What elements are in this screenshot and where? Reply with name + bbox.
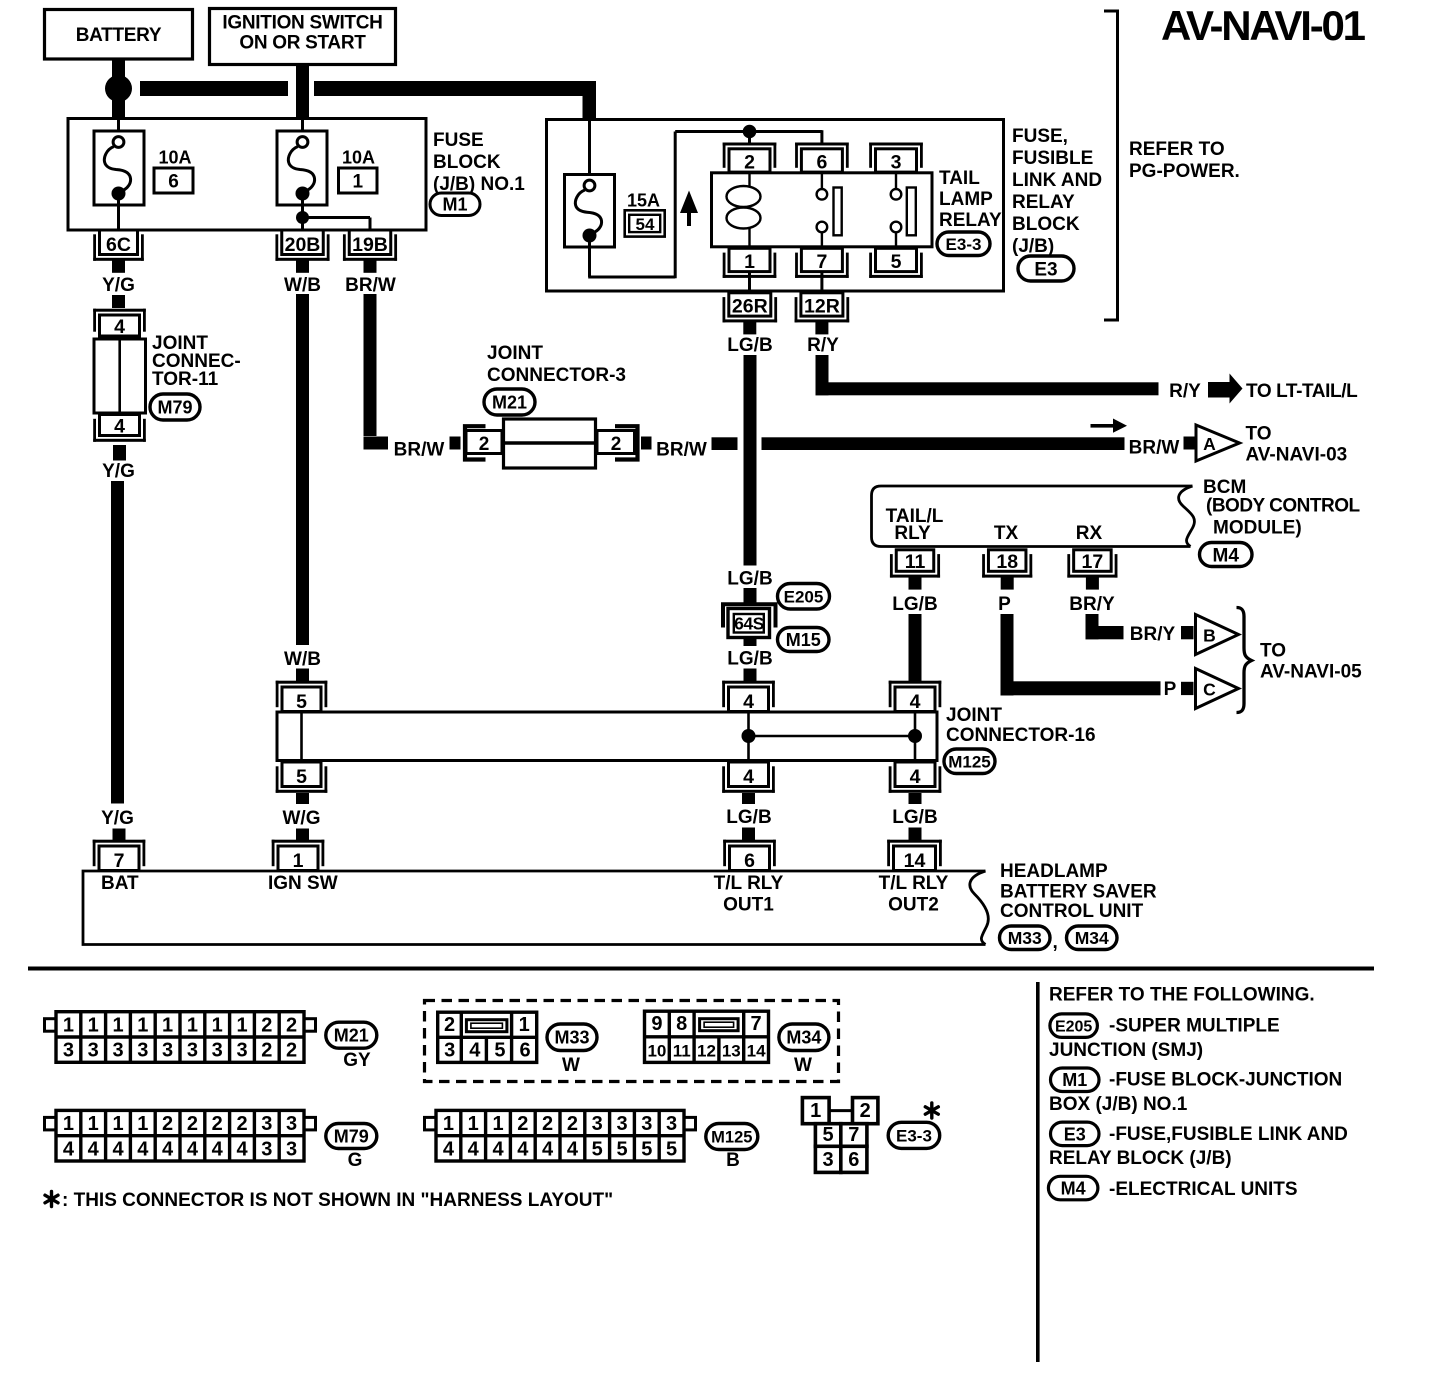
JC-16 pin 5 top [276,681,328,684]
connector ref M21 oval [484,389,535,415]
svg-text:4: 4 [187,1138,199,1160]
SMJ 64S bracket [723,604,776,627]
svg-text:4: 4 [517,1138,529,1160]
svg-text:12: 12 [697,1041,716,1060]
svg-text:18: 18 [996,551,1018,573]
svg-text:26R: 26R [732,296,768,318]
connector ref M33 oval (bottom) [547,1024,597,1051]
svg-text:5: 5 [494,1039,505,1061]
legend vertical separator [1036,982,1040,1362]
svg-text:ON OR START: ON OR START [239,33,366,54]
svg-text:LG/B: LG/B [727,649,772,670]
svg-text:5: 5 [891,251,902,273]
connector ref M34 oval (bottom) [779,1024,829,1051]
up arrow (energize direction) [680,191,698,214]
wire: stub to arrow A [1184,437,1196,450]
svg-text:LG/B: LG/B [892,807,937,828]
svg-text:5: 5 [823,1124,834,1146]
svg-text:3: 3 [162,1040,173,1062]
tail lamp relay body [712,173,933,247]
svg-text:11: 11 [905,551,926,573]
bottom connector M125 grid [425,1117,437,1130]
svg-text:15A: 15A [627,191,660,211]
junction dot: fuse 1 output split [296,211,309,224]
svg-text:4: 4 [114,316,125,338]
svg-text:TAIL: TAIL [939,168,980,189]
svg-text:FUSIBLE: FUSIBLE [1012,148,1093,169]
fuse/fusible-link/relay block outline [547,120,1004,292]
relay contact 6-7 [821,173,823,189]
legend M4 oval [1048,1176,1098,1200]
svg-text:6: 6 [519,1039,530,1061]
wire: stub below 4 br [909,793,922,804]
svg-text:JOINT: JOINT [487,343,543,364]
svg-text:M21: M21 [334,1026,369,1046]
small flow arrow over BR/W [1091,424,1114,428]
svg-text:6C: 6C [106,234,131,256]
svg-text:M4: M4 [1213,545,1240,566]
svg-text:LG/B: LG/B [726,807,771,828]
wire: BR/W horizontal segment A [712,437,738,450]
joint connector-11 body [94,339,146,413]
svg-text:3: 3 [616,1113,627,1135]
svg-text:3: 3 [236,1040,247,1062]
svg-text:12R: 12R [804,296,840,318]
svg-text:54: 54 [636,215,655,234]
bottom connector M21 grid [45,1019,57,1031]
svg-text:5: 5 [641,1138,652,1160]
svg-text:4: 4 [212,1138,224,1160]
off-page arrow C [1196,669,1239,709]
svg-text:11: 11 [673,1041,691,1060]
wire: W/G to IGN SW pin [296,829,309,842]
svg-text:4: 4 [63,1138,75,1160]
svg-text:M34: M34 [786,1028,821,1048]
bottom connector M34 [645,1011,769,1062]
svg-text:5: 5 [666,1138,677,1160]
svg-text:W: W [794,1055,812,1076]
svg-text:3: 3 [261,1138,272,1160]
svg-text:8: 8 [676,1013,687,1035]
svg-text:4: 4 [137,1138,149,1160]
BCM torn edge [1179,486,1195,547]
svg-text:4: 4 [88,1138,100,1160]
svg-text:2: 2 [187,1113,198,1135]
svg-text:4: 4 [743,691,754,713]
svg-text:2: 2 [236,1113,247,1135]
CU pin 7 [93,840,146,843]
svg-text:6: 6 [848,1149,859,1171]
svg-text:-FUSE BLOCK-JUNCTION: -FUSE BLOCK-JUNCTION [1109,1070,1342,1091]
wire: lead to fuse 54 [588,121,591,181]
svg-text:AV-NAVI-05: AV-NAVI-05 [1260,662,1362,683]
svg-text:20B: 20B [285,234,321,256]
wire: main bus right segment [314,81,596,96]
bottom connector E3-3 [829,1109,853,1112]
svg-text:4: 4 [236,1138,248,1160]
svg-text:7: 7 [114,850,125,872]
svg-text:TO: TO [1260,641,1286,662]
svg-text:4: 4 [910,691,921,713]
svg-text:1: 1 [137,1014,148,1036]
svg-text:W/B: W/B [284,275,321,296]
svg-text:T/L RLY: T/L RLY [879,873,949,894]
svg-text:MODULE): MODULE) [1213,518,1302,539]
connector 12R [795,319,850,322]
legend E205 oval [1050,1014,1098,1038]
svg-text:Y/G: Y/G [102,275,135,296]
svg-text:TX: TX [994,523,1019,544]
wire: bus corner drop to relay block [583,81,597,121]
svg-text:BR/W: BR/W [656,440,707,461]
wire: LG/B pin11 to JC-16 [909,614,922,681]
joint connector-3 left bracket [465,426,486,459]
joint connector-11 bottom pin 4 [93,439,146,442]
wire: pin1 to 26R [748,272,751,293]
svg-text:E3: E3 [1034,259,1057,280]
relay pin 2 [723,143,777,146]
svg-text:1: 1 [112,1113,123,1135]
relay pin 7 [795,275,849,278]
svg-text:2: 2 [212,1113,223,1135]
svg-text:-SUPER MULTIPLE: -SUPER MULTIPLE [1109,1016,1280,1037]
svg-text:B: B [1203,626,1216,646]
svg-text:5: 5 [616,1138,627,1160]
svg-text:AV-NAVI-03: AV-NAVI-03 [1246,445,1348,466]
svg-text:64S: 64S [734,614,764,634]
svg-text:14: 14 [747,1041,766,1060]
svg-text:G: G [348,1150,363,1171]
svg-text:1: 1 [492,1113,503,1135]
svg-text:W/B: W/B [284,649,321,670]
svg-text:3: 3 [666,1113,677,1135]
curly brace to AV-NAVI-05 [1237,608,1252,713]
svg-text:4: 4 [492,1138,504,1160]
wire: fuse 54 output elbow [588,239,591,277]
svg-text:1: 1 [112,1014,123,1036]
svg-text:RELAY: RELAY [1012,192,1075,213]
svg-text:T/L RLY: T/L RLY [714,873,784,894]
svg-text:7: 7 [816,251,827,273]
connector ref M15 oval [778,628,830,652]
svg-text:REFER TO THE FOLLOWING.: REFER TO THE FOLLOWING. [1049,985,1315,1006]
control unit torn edge [970,871,989,945]
svg-text:E3: E3 [1064,1124,1086,1144]
svg-text:TOR-11: TOR-11 [152,369,219,390]
svg-text:-ELECTRICAL UNITS: -ELECTRICAL UNITS [1109,1179,1298,1200]
svg-text:BAT: BAT [101,873,139,894]
svg-text:4: 4 [114,415,125,437]
svg-text:3: 3 [592,1113,603,1135]
svg-text:M125: M125 [711,1128,752,1146]
svg-text:1: 1 [88,1014,99,1036]
svg-text:CONNECTOR-3: CONNECTOR-3 [487,365,626,386]
CU ref M33 oval [1000,926,1051,950]
svg-text:3: 3 [891,152,902,174]
svg-text:FUSE,: FUSE, [1012,126,1068,147]
svg-text:M125: M125 [948,752,991,771]
svg-text:TO LT-TAIL/L: TO LT-TAIL/L [1246,381,1358,402]
svg-text:Y/G: Y/G [102,461,135,482]
wire: BR/W drop and elbow [364,294,377,436]
BCM pin 18 [982,575,1032,578]
svg-text:1: 1 [63,1014,74,1036]
svg-text:3: 3 [823,1149,834,1171]
CU ref M34 oval [1067,926,1118,950]
svg-text:4: 4 [468,1138,480,1160]
cavity box 54 [625,210,665,236]
svg-text:OUT2: OUT2 [888,895,939,916]
svg-text:M33: M33 [1008,928,1042,948]
joint connector-11 top pin 4 [93,309,146,312]
connector ref M21 oval (bottom) [326,1022,377,1048]
svg-text:2: 2 [744,152,755,174]
wire: BR/Y elbow to arrow B [1086,614,1099,639]
svg-text:19B: 19B [352,234,388,256]
wire: stub into 64S [744,588,757,604]
svg-text:IGN SW: IGN SW [268,873,338,894]
svg-text:17: 17 [1082,551,1104,573]
connector 20B [275,258,329,261]
BCM ref M4 oval [1200,543,1253,567]
svg-text:10A: 10A [342,148,375,168]
svg-text:1: 1 [88,1113,99,1135]
svg-text:IGNITION SWITCH: IGNITION SWITCH [222,13,382,34]
svg-text:2: 2 [542,1113,553,1135]
svg-text:6: 6 [816,152,827,174]
svg-text:E205: E205 [1055,1018,1092,1035]
connector ref M125 oval [944,749,995,774]
wire: ignition switch drop [296,65,309,120]
svg-text:1: 1 [468,1113,479,1135]
fuse F1 housing [277,131,327,205]
svg-text:3: 3 [137,1040,148,1062]
svg-text:R/Y: R/Y [807,335,839,356]
svg-text:1: 1 [187,1014,198,1036]
svg-text:5: 5 [592,1138,603,1160]
joint connector-3 left pin 2 [466,431,502,454]
wire: LG/B into JC-16 [744,669,757,682]
JC-16 pin 4 bottom-left [722,790,775,793]
footnote star note [50,1192,53,1207]
svg-text:13: 13 [722,1041,741,1060]
svg-text:: THIS CONNECTOR IS NOT SHOWN: : THIS CONNECTOR IS NOT SHOWN IN "HARNES… [62,1190,613,1211]
BCM box outline [872,486,1193,547]
connector ref M125 oval (bottom) [706,1124,758,1150]
svg-text:2: 2 [479,434,490,455]
svg-text:LG/B: LG/B [892,594,937,615]
off-page arrow B [1196,615,1239,655]
svg-text:6: 6 [744,850,755,872]
svg-text:LAMP: LAMP [939,189,993,210]
svg-text:1: 1 [810,1100,821,1122]
relay contact 3-5 [895,173,897,189]
joint connector-3 body [504,419,596,468]
svg-text:,: , [1053,932,1058,953]
fuse F6 housing [94,131,144,205]
svg-text:3: 3 [286,1138,297,1160]
svg-text:1: 1 [212,1014,223,1036]
svg-text:JOINT: JOINT [946,705,1002,726]
wire: battery to bus junction [112,59,125,106]
svg-text:P: P [1164,679,1177,700]
fuse 54 housing [565,175,615,248]
svg-text:7: 7 [751,1013,762,1035]
connector ref M79 oval [150,394,200,420]
svg-text:M34: M34 [1075,928,1109,948]
svg-text:1: 1 [443,1113,454,1135]
wire: Y/G long drop to BAT pin [111,481,124,804]
svg-text:HEADLAMP: HEADLAMP [1000,861,1108,882]
svg-text:2: 2 [444,1014,455,1036]
svg-text:1: 1 [236,1014,247,1036]
wire: ignition fuse lead-in [301,120,304,137]
svg-text:2: 2 [611,434,622,455]
svg-text:BOX (J/B) NO.1: BOX (J/B) NO.1 [1049,1094,1188,1115]
legend M1 oval [1051,1068,1100,1092]
wire: W/B long drop [296,294,309,645]
svg-text:M1: M1 [1062,1070,1087,1090]
svg-text:BR/Y: BR/Y [1130,624,1176,645]
wire: stub to arrow C [1181,682,1194,695]
JC-16 pin 4 top-right [889,681,942,684]
wire: relay feed rail [675,130,822,133]
svg-text:1: 1 [353,172,364,193]
bottom connector M79 grid [45,1117,57,1130]
svg-text:-FUSE,FUSIBLE LINK AND: -FUSE,FUSIBLE LINK AND [1109,1124,1348,1145]
svg-text:AV-NAVI-01: AV-NAVI-01 [1161,2,1366,49]
svg-text:OUT1: OUT1 [723,895,774,916]
wire: W/B stub into pin5 [296,669,309,682]
svg-text:2: 2 [286,1040,297,1062]
JC-16 internal links [747,713,750,760]
svg-text:E3-3: E3-3 [896,1126,932,1145]
wire: stub into JC-3 left [450,437,461,450]
svg-text:1: 1 [162,1014,173,1036]
SMJ 64S box [728,609,770,638]
svg-text:BLOCK: BLOCK [433,152,501,173]
svg-text:7: 7 [848,1124,859,1146]
joint connector-3 right bracket [615,426,638,459]
svg-text:C: C [1203,680,1216,700]
svg-text:3: 3 [112,1040,123,1062]
separator line [28,967,1374,971]
BCM pin 17 [1067,575,1117,578]
connector 6C [93,258,144,261]
fuse F6 10A symbol [113,137,124,148]
JC-16 pin 4 top-left [722,681,775,684]
relay pin 6 [795,143,849,146]
svg-text:4: 4 [112,1138,124,1160]
joint connector-3 right pin 2 [597,431,635,454]
svg-text:RX: RX [1076,523,1103,544]
refer-to-pg-power bracket [1104,11,1118,320]
svg-text:4: 4 [542,1138,554,1160]
svg-text:JUNCTION (SMJ): JUNCTION (SMJ) [1049,1040,1203,1061]
fuse 54 15A symbol [584,180,595,191]
svg-text:4: 4 [567,1138,579,1160]
svg-text:PG-POWER.: PG-POWER. [1129,161,1240,182]
wire: LG/B from 26R [744,355,757,566]
svg-text:M21: M21 [492,392,527,412]
svg-text:CONNECTOR-16: CONNECTOR-16 [946,725,1096,746]
connector ref E3-3 oval (bottom) [888,1122,940,1148]
svg-text:3: 3 [88,1040,99,1062]
fuse block J/B No.1 outline [68,119,426,231]
svg-text:2: 2 [517,1113,528,1135]
svg-text:2: 2 [162,1113,173,1135]
svg-text:BLOCK: BLOCK [1012,214,1080,235]
svg-text:FUSE: FUSE [433,130,484,151]
svg-text:14: 14 [904,850,926,872]
svg-text:BATTERY: BATTERY [76,25,162,46]
wire: main bus left segment [140,81,288,96]
svg-text:LG/B: LG/B [727,569,772,590]
svg-text:M79: M79 [157,397,192,417]
relay coil [748,173,750,186]
svg-text:M4: M4 [1061,1179,1086,1199]
svg-text:RELAY: RELAY [939,210,1002,231]
svg-text:W: W [562,1055,580,1076]
wire: LG/B to T/L RLY OUT2 [909,828,922,842]
svg-text:3: 3 [444,1039,455,1061]
wire: Y/G below JC-11 [113,445,126,461]
wire: stub out of JC-3 right [641,437,652,450]
svg-text:1: 1 [744,251,755,273]
svg-text:5: 5 [296,766,307,788]
svg-text:M33: M33 [554,1028,589,1048]
wire: stub to arrow B [1181,626,1194,639]
cavity box 6 [154,168,193,193]
svg-text:4: 4 [910,766,921,788]
svg-text:1: 1 [519,1014,530,1036]
wire: LG/B to T/L RLY OUT1 [742,828,755,842]
svg-text:1: 1 [293,850,304,872]
svg-text:2: 2 [860,1100,871,1122]
fuse F1 10A symbol [297,137,308,148]
wire: R/Y from 12R elbow [816,355,829,395]
connector ref M1 oval [430,193,480,216]
svg-text:B: B [726,1150,740,1171]
svg-text:M1: M1 [442,195,467,215]
svg-text:BR/W: BR/W [394,440,445,461]
svg-text:A: A [1203,434,1216,454]
svg-text:GY: GY [343,1050,371,1071]
control unit box outline [83,871,986,945]
svg-text:R/Y: R/Y [1169,381,1201,402]
svg-text:4: 4 [743,766,754,788]
svg-text:2: 2 [261,1014,272,1036]
relay pin 5 [869,275,923,278]
svg-text:(BODY CONTROL: (BODY CONTROL [1206,496,1360,517]
svg-text:M15: M15 [786,630,821,650]
svg-text:3: 3 [286,1113,297,1135]
joint connector-16 body [277,712,937,761]
svg-text:E205: E205 [784,587,824,606]
JC-16 pin 5 bottom [276,790,328,793]
cavity box 1 [339,168,378,193]
wire: Y/G to BAT pin [113,829,126,842]
wire: battery fuse lead-in [117,120,120,137]
wire: BR/W horizontal to arrow A [762,437,1125,450]
junction dot: relay coil feed [743,125,757,139]
svg-text:10A: 10A [159,148,192,168]
star marker for E3-3 [930,1103,933,1118]
svg-text:3: 3 [261,1113,272,1135]
legend E3 oval [1051,1122,1100,1146]
svg-text:REFER TO: REFER TO [1129,139,1225,160]
JC-16 pin 4 bottom-right [889,790,942,793]
